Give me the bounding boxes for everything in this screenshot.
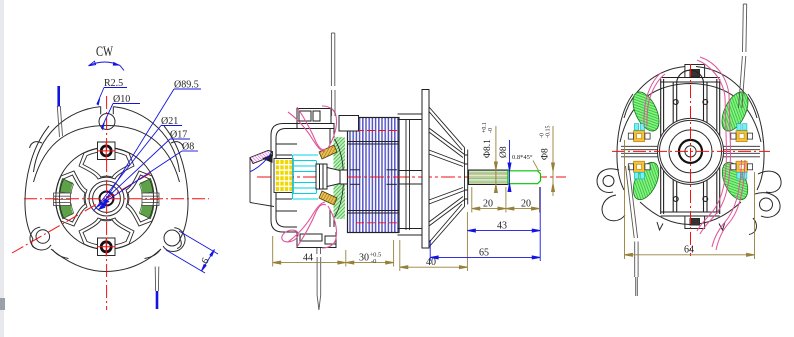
shaft between lamination and plate bbox=[399, 171, 422, 185]
svg-text:64: 64 bbox=[684, 245, 694, 256]
bottom-left strap wire right view bbox=[626, 166, 639, 297]
screw bracket bottom bbox=[98, 238, 116, 256]
housing dome arc bbox=[34, 107, 101, 172]
left ear hole bbox=[36, 230, 50, 244]
top tab bbox=[685, 65, 705, 78]
fan diffuser cone slats bbox=[429, 107, 468, 247]
end bracket outline bbox=[271, 109, 336, 248]
vertical dim PHI8 -0.15 bbox=[552, 126, 555, 196]
svg-text:Φ8: Φ8 bbox=[541, 148, 551, 160]
bottom tab bbox=[685, 217, 705, 229]
top-left lead wire bbox=[57, 106, 62, 137]
svg-text:-0: -0 bbox=[488, 128, 494, 133]
housing right wall bbox=[748, 94, 764, 190]
yellow brush block bbox=[274, 159, 293, 193]
svg-text:Φ8.1: Φ8.1 bbox=[483, 139, 493, 158]
CW rotation arrow bbox=[89, 62, 120, 66]
svg-text:CW: CW bbox=[96, 44, 114, 60]
right ear lobes bbox=[758, 171, 781, 192]
magenta wires right view bbox=[644, 57, 745, 250]
green winding end band bbox=[298, 137, 380, 219]
lamination slot lines bbox=[348, 142, 399, 214]
bottom lead wire bbox=[155, 267, 159, 292]
cyan spring lines bbox=[293, 155, 319, 199]
notch circle bbox=[99, 114, 115, 130]
svg-text:Ø8: Ø8 bbox=[182, 142, 194, 153]
frame bars bbox=[661, 70, 720, 216]
dimension 6 at right ear bbox=[166, 231, 218, 273]
magenta wires center view bbox=[280, 106, 336, 248]
shaft bold circle bbox=[100, 192, 114, 206]
cyan spring clips bbox=[634, 124, 747, 179]
vertical dim O8 blue bbox=[508, 140, 511, 192]
brush blocks bbox=[628, 131, 650, 142]
dim 20 20 bbox=[472, 187, 540, 213]
right ear hole bbox=[164, 230, 180, 246]
screw bracket top bbox=[98, 142, 116, 160]
leader lines left view bbox=[94, 88, 202, 212]
svg-text:20: 20 bbox=[483, 199, 493, 210]
svg-text:Ø17: Ø17 bbox=[170, 130, 187, 141]
svg-text:20: 20 bbox=[521, 199, 531, 210]
shaft section hatched 8.1 bbox=[469, 170, 509, 185]
housing top notch bbox=[101, 107, 114, 115]
dim 64 bbox=[625, 140, 755, 259]
top lead wire center view bbox=[331, 33, 335, 116]
left page border strip bbox=[0, 0, 4, 337]
right ear tab bbox=[163, 228, 185, 252]
bottom lead wire center view bbox=[317, 248, 321, 310]
svg-text:Ø8: Ø8 bbox=[499, 146, 509, 158]
svg-text:Ø10: Ø10 bbox=[113, 94, 130, 105]
svg-text:0.8*45°: 0.8*45° bbox=[512, 154, 533, 161]
green coils 4x bbox=[628, 88, 754, 204]
housing bottom arc bbox=[640, 202, 741, 225]
inner circles bbox=[89, 181, 124, 216]
housing left wall bbox=[617, 94, 633, 190]
commutator and rotor hub bbox=[316, 164, 348, 189]
pole shoes x4 bbox=[79, 148, 134, 179]
housing bottom arc bbox=[51, 249, 161, 272]
dim 65 blue bbox=[430, 240, 540, 261]
stator lamination block bbox=[348, 118, 400, 233]
red hidden screw lines in lamination bbox=[356, 131, 399, 223]
brush cap detail at left bbox=[250, 151, 274, 207]
green coil arcs left bbox=[65, 181, 148, 217]
stator circle bbox=[56, 148, 158, 250]
housing right wall bbox=[164, 126, 188, 239]
left ear tab bbox=[30, 227, 51, 250]
shaft section plain O8 with chamfer bbox=[508, 171, 541, 184]
housing left wall bbox=[25, 126, 49, 239]
svg-text:-0.15: -0.15 bbox=[546, 126, 552, 139]
vertical dim PHI8.1 bbox=[494, 126, 497, 193]
bearing plate bbox=[422, 90, 429, 249]
red center lines right view bbox=[612, 64, 770, 256]
svg-text:43: 43 bbox=[497, 221, 507, 232]
housing dome arcs bbox=[624, 67, 685, 119]
top lead wire right view bbox=[739, 4, 747, 108]
terminal block over lamination top-left bbox=[339, 116, 359, 132]
red main center line bbox=[257, 176, 566, 178]
dim 43 blue bbox=[467, 187, 540, 261]
svg-text:R2.5: R2.5 bbox=[104, 78, 123, 89]
dim 30+0.5 bbox=[346, 240, 394, 267]
svg-text:Ø21: Ø21 bbox=[161, 116, 178, 127]
housing inner front-edge arc bbox=[620, 84, 761, 143]
fan hub verticals bbox=[398, 114, 425, 235]
gold brush holders bbox=[319, 145, 337, 159]
center circles bbox=[658, 118, 724, 184]
left ear lobes bbox=[597, 169, 619, 193]
slot wedge striped bars left/right bbox=[54, 193, 160, 206]
svg-text:65: 65 bbox=[479, 248, 489, 259]
svg-text:44: 44 bbox=[303, 253, 313, 264]
svg-text:30: 30 bbox=[359, 253, 369, 264]
dim 44 bbox=[273, 236, 346, 267]
svg-text:-0: -0 bbox=[371, 258, 376, 265]
housing inner front-edge arc bbox=[34, 126, 180, 183]
bottom tips bbox=[657, 222, 663, 230]
svg-text:Ø89.5: Ø89.5 bbox=[174, 80, 199, 91]
brush slots horizontal lines bbox=[621, 146, 760, 157]
red center lines bbox=[12, 96, 209, 310]
dim 40 bbox=[400, 212, 468, 271]
red center line over lamination bbox=[347, 176, 400, 178]
